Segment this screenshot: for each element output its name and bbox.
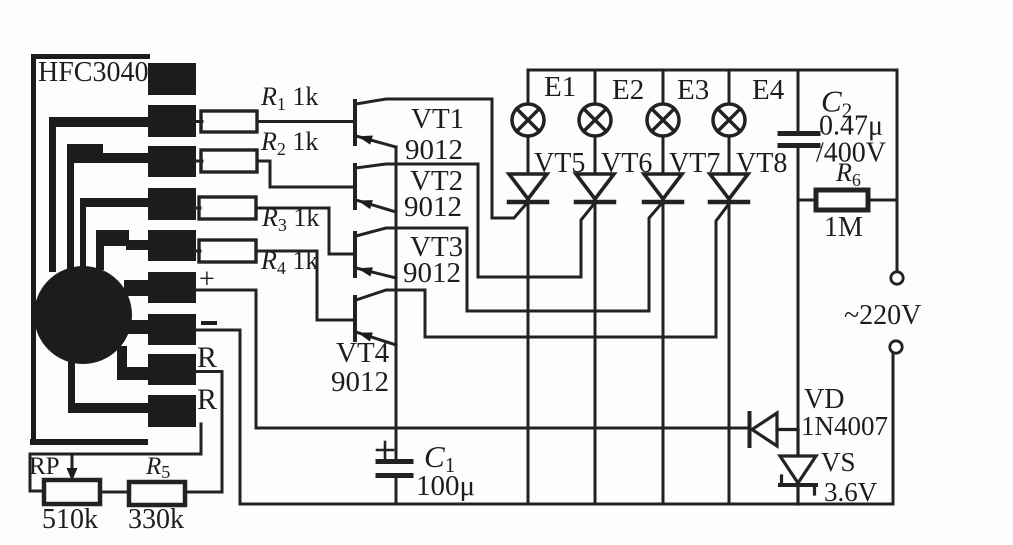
- transistor VT2 base bar: [353, 165, 357, 208]
- IC U1 chip blob (black die circle): [34, 266, 132, 364]
- resistor R1 box: [201, 111, 257, 132]
- IC U1 internal trace to pad7: [122, 320, 152, 334]
- IC U1 internal trace to pad9: [68, 356, 152, 413]
- svg-text:3.6V: 3.6V: [824, 477, 878, 507]
- svg-text:E4: E4: [752, 74, 785, 106]
- thyristor VT5: [509, 174, 547, 202]
- svg-text:9012: 9012: [405, 134, 463, 166]
- transistor VT1 base bar: [353, 101, 357, 144]
- wire E3 to VT7: [662, 136, 665, 174]
- transistor VT4 base bar: [353, 297, 357, 340]
- svg-text:RP: RP: [29, 453, 60, 480]
- lamp E1: [512, 104, 544, 136]
- resistor R3 box: [199, 197, 256, 219]
- transistor VT4 emitter lead: [356, 332, 396, 345]
- svg-text:R2 1k: R2 1k: [260, 127, 318, 159]
- transistor VT2 emitter arrow: [358, 200, 373, 209]
- resistor R4 box: [199, 240, 256, 262]
- svg-text:VT1: VT1: [411, 103, 464, 135]
- transistor VT1 emitter arrow: [358, 136, 373, 145]
- wire VT2 collector to VT6 gate: [478, 164, 594, 277]
- wire pad3 to R2: [194, 160, 202, 163]
- wire R5 to R wire: [185, 491, 222, 494]
- wire lamp E3 drop: [662, 70, 665, 104]
- svg-text:E3: E3: [677, 74, 709, 106]
- svg-text:1N4007: 1N4007: [801, 411, 888, 441]
- IC U1 internal trace to pad8: [117, 346, 152, 380]
- wire common emitter column: [395, 147, 398, 460]
- wire R pad1 to R5: [194, 372, 222, 493]
- wire pad4 to R3: [194, 207, 200, 210]
- wire right edge bottom: [892, 354, 895, 504]
- svg-text:R1 1k: R1 1k: [260, 82, 318, 114]
- wire VT8 cathode column: [728, 202, 731, 504]
- lamp E4: [713, 104, 745, 136]
- wire + pad to positive rail: [194, 290, 256, 428]
- transistor VT3 emitter arrow: [358, 267, 373, 276]
- wire pad5 to R4: [194, 250, 200, 253]
- capacitor C1 plates: [378, 459, 411, 464]
- svg-text:HFC3040: HFC3040: [38, 57, 148, 88]
- wire E4 to VT8: [728, 136, 731, 174]
- transistor VT2 collector lead: [356, 164, 478, 168]
- transistor VT3 base bar: [353, 233, 357, 276]
- pin label -: [201, 321, 217, 325]
- thyristor VT8: [710, 174, 748, 202]
- IC U1 internal trace to pad2: [49, 117, 152, 272]
- transistor VT4 emitter arrow: [358, 333, 373, 342]
- wire VT3 collector to VT7 gate: [467, 203, 662, 311]
- svg-text:9012: 9012: [403, 257, 461, 289]
- wire VT1 collector to VT5 gate: [492, 99, 527, 218]
- capacitor C2 plates: [780, 131, 818, 136]
- capacitor C2 top lead: [797, 70, 800, 131]
- transistor VT1 emitter lead: [356, 136, 396, 147]
- IC U1 internal trace to pad5: [96, 230, 152, 270]
- wire lamp E2 drop: [594, 70, 597, 104]
- transistor VT3 collector lead: [356, 228, 467, 236]
- svg-text:~220V: ~220V: [844, 300, 921, 331]
- transistor VT1 collector lead: [356, 99, 492, 104]
- IC U1 internal trace to pad6: [124, 280, 152, 296]
- resistor R6 leads: [798, 199, 814, 202]
- resistor R5 box: [129, 482, 185, 505]
- terminal lower: [890, 341, 902, 353]
- svg-text:E2: E2: [612, 74, 644, 106]
- svg-text:VS: VS: [821, 447, 856, 477]
- svg-text:9012: 9012: [331, 366, 389, 398]
- wire bottom rail: [240, 503, 893, 506]
- svg-text:E1: E1: [544, 71, 576, 103]
- potentiometer RP box: [44, 480, 100, 504]
- terminal upper: [891, 272, 903, 284]
- resistor R6 box: [816, 190, 868, 210]
- wire C2 bottom to VD anode: [797, 148, 800, 430]
- wire RP to R5: [100, 491, 129, 494]
- wire positive rail: [256, 427, 748, 430]
- svg-text:330k: 330k: [128, 504, 184, 535]
- lamp E3: [647, 104, 679, 136]
- IC U1 pad column (9 bonding pads): [148, 63, 196, 427]
- wire R3 to VT3 base: [256, 208, 354, 254]
- wire VT6 cathode column: [594, 202, 597, 504]
- IC U1 HFC3040 block border: [30, 54, 150, 445]
- thyristor VT6: [576, 174, 614, 202]
- resistor R2 box: [201, 150, 257, 172]
- transistor VT3 emitter lead: [356, 268, 396, 278]
- wire top AC rail: [528, 70, 897, 104]
- capacitor C1 plus sign: [377, 442, 393, 458]
- wire E2 to VT6: [594, 136, 597, 174]
- wire - pad to bottom rail: [194, 330, 240, 504]
- wire VT4 collector to VT8 gate: [425, 205, 728, 337]
- wire R2 to VT2 base: [257, 161, 354, 187]
- IC U1 internal trace to pad3: [67, 144, 152, 269]
- svg-text:VT4: VT4: [336, 337, 390, 369]
- svg-text:R: R: [197, 383, 217, 416]
- wire lamp E4 drop: [728, 70, 731, 104]
- svg-text:510k: 510k: [42, 504, 98, 535]
- zener VS: [780, 430, 816, 504]
- svg-text:R5: R5: [145, 453, 170, 482]
- svg-text:R: R: [197, 341, 217, 374]
- wire R1 to VT1 base: [257, 120, 354, 123]
- wire VT5 cathode column: [527, 202, 530, 504]
- svg-text:VT8: VT8: [736, 148, 787, 179]
- wire right edge top: [896, 70, 899, 271]
- svg-text:100μ: 100μ: [416, 470, 475, 502]
- wire pad2 to R1: [194, 120, 202, 123]
- wire VT7 cathode column: [662, 202, 665, 504]
- wire C1 to bottom rail: [395, 476, 398, 504]
- lamp E2: [579, 104, 611, 136]
- thyristor VT7: [644, 174, 682, 202]
- svg-text:9012: 9012: [404, 191, 462, 223]
- potentiometer RP arrow: [71, 454, 74, 472]
- wire R pad2 down: [30, 424, 201, 491]
- wire R4 to VT4 base: [256, 251, 354, 320]
- transistor VT4 collector lead: [356, 290, 425, 300]
- wire E1 to VT5: [527, 136, 530, 174]
- IC U1 internal trace to pad4: [80, 198, 152, 268]
- transistor VT2 emitter lead: [356, 200, 396, 212]
- diode VD: [750, 413, 799, 446]
- svg-text:1M: 1M: [824, 212, 863, 243]
